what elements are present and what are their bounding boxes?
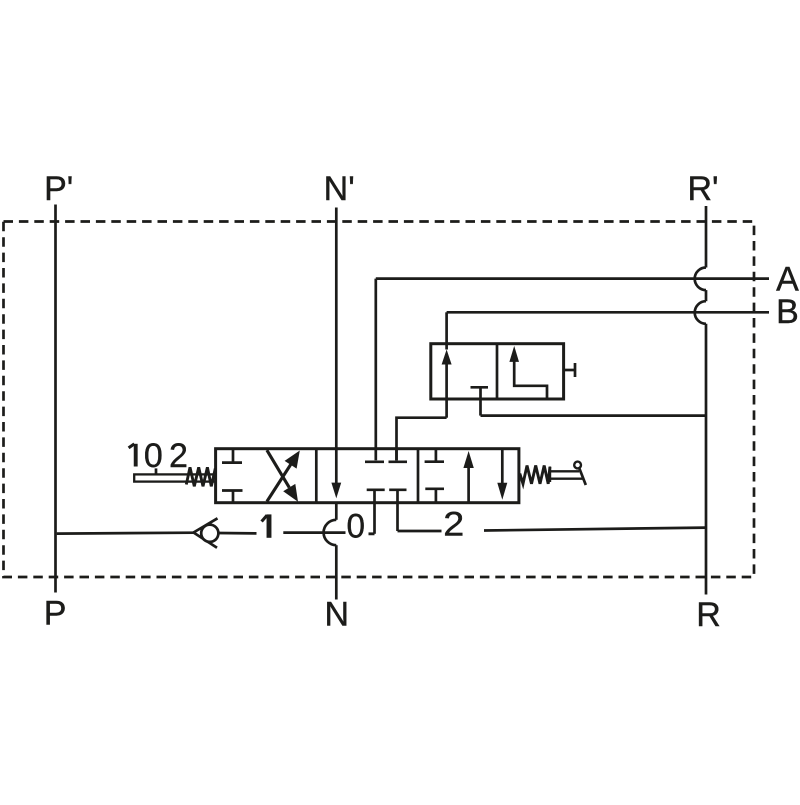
S1 bottom blocked port stub [232,492,235,503]
S0 bottom blocked port bar 2 [389,488,406,491]
S2 down arrow head [497,483,507,500]
S1 bottom blocked port bar [222,489,243,492]
port line N (vertical, middle, upper part) [335,208,338,449]
svg-text:0: 0 [144,437,163,475]
S2 top blocked port bar [425,460,444,463]
S0 top blocked port stub 2 [395,449,398,461]
main valve body [216,449,519,503]
manual lever arm [579,468,586,485]
left return spring [186,467,215,486]
pilot blocked port stub down [479,388,482,415]
S0 bottom port stub 1 down to link [373,491,376,534]
svg-text:N': N' [324,170,355,208]
S0 bottom port stub 2 down [396,491,399,531]
pilot valve blocked port T bar [471,386,489,389]
position tick under 0 [155,468,158,474]
S1 crossed arrow up shaft [267,464,291,501]
port line P (vertical, left) [54,205,57,593]
S0 bottom blocked port bar 1 [367,488,385,491]
S0 top blocked port bar (A side) [365,460,384,463]
S2 down arrow shaft [501,449,504,483]
check valve ball [201,525,218,542]
line B horizontal [447,311,769,314]
svg-text:N: N [325,596,350,634]
N line hop over link line [324,520,337,545]
R line segment between hops [705,290,708,301]
svg-text:P: P [44,595,67,633]
svg-text:2: 2 [443,506,464,544]
right push rod top line [551,470,580,472]
svg-text:P': P' [44,170,73,208]
label position 1: stem [267,514,272,537]
divider section 0|2 [417,449,420,503]
pilot right section arrow head [509,346,519,362]
right return spring [520,466,550,484]
S2 bottom blocked port stub [435,490,438,503]
S2 up arrow head [463,451,473,468]
S1 top blocked port stub [232,449,235,462]
divider section 1|0 [315,449,318,503]
enclosure dashed boundary [4,222,755,578]
check valve seat line upper [194,518,218,532]
line A vertical drop to valve port [374,279,377,461]
svg-text:B: B [776,293,799,331]
svg-text:R: R [696,596,721,634]
link line label 2 to R [484,528,706,531]
branch line from P to check valve [57,531,194,535]
right push rod bottom line [551,478,584,480]
pilot valve body [431,344,564,399]
pilot right section arrow shaft and step path [514,361,547,399]
S1 crossed arrow down shaft [267,450,289,487]
manual lever knob [574,462,581,469]
pilot valve section divider [496,344,499,399]
link segment stub2 to label 2 [398,530,442,533]
S1 crossed arrow down head [283,484,298,502]
R line hop over line A [695,268,706,291]
pilot valve left section arrow shaft [445,364,448,418]
port line N lower part [335,545,338,599]
S1 crossed arrow up head [285,451,300,469]
left actuator push rod [134,474,216,481]
port line R lower part [705,324,708,595]
R line hop over line B [695,301,706,324]
label 102: digit 1 flag [129,444,135,448]
svg-text:0: 0 [346,508,365,546]
pilot bottom port elbow to main valve [397,418,447,461]
line A horizontal [376,277,769,280]
pilot plug stub right [564,369,575,372]
pilot valve left section up-arrow head [442,350,452,365]
S2 bottom blocked port bar [425,487,444,490]
N flow arrow head [331,483,341,499]
S2 up arrow shaft [467,467,470,503]
port line R upper part [705,206,708,268]
link segment after 0 [369,532,375,535]
right spring end bar [549,467,552,483]
pilot plug end bar [574,363,577,377]
line B drop into pilot valve [445,312,448,349]
link line check valve to label 1 [218,532,257,535]
svg-text:2: 2 [169,437,188,475]
S2 top blocked port stub [435,449,438,461]
port line N below valve [335,503,338,520]
link tick left of stub 1 [369,532,375,535]
svg-text:R': R' [687,170,718,208]
S0 top blocked port bar 2 [389,460,408,463]
check valve seat line lower [194,533,218,548]
link line label 1 to N hop [283,531,345,534]
N flow arrow shaft inside valve [335,449,338,484]
S1 top blocked port bar [222,461,242,464]
label 102 positions: digit 1 stem [134,444,138,467]
label position 1: flag [262,515,267,521]
pilot drain line to R [481,414,707,417]
